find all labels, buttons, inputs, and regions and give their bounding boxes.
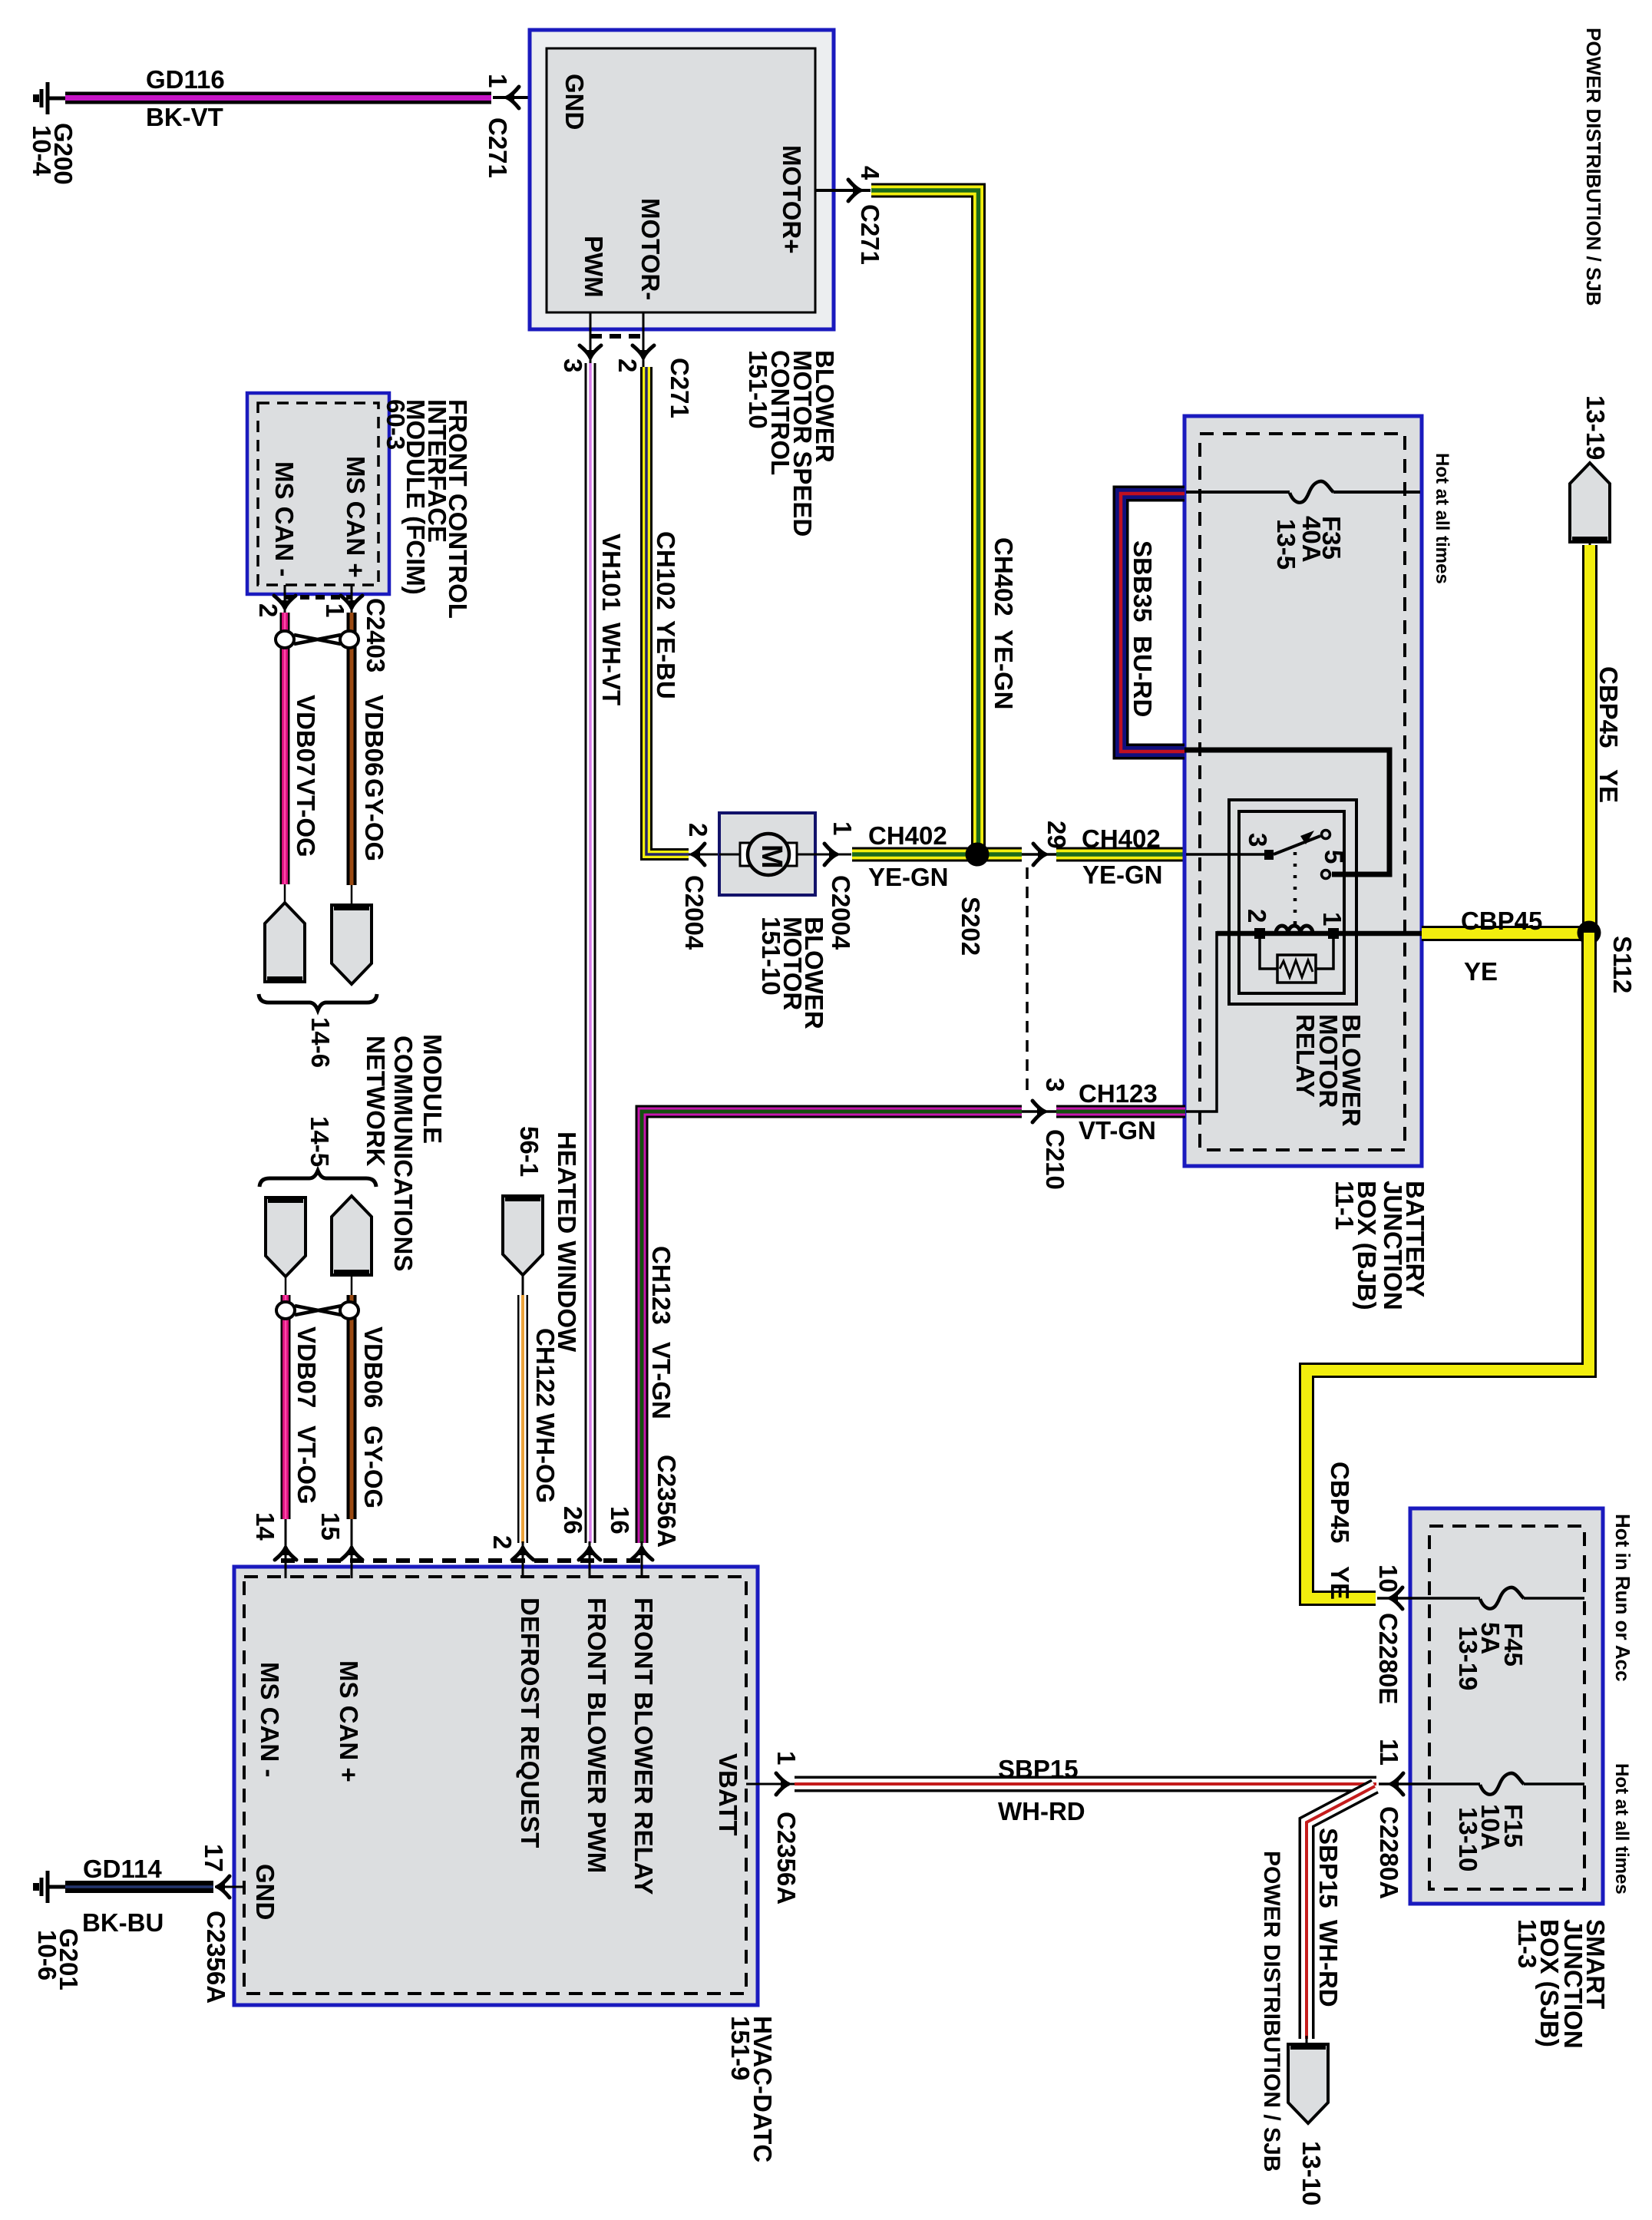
svg-text:10-4: 10-4 <box>28 125 56 177</box>
svg-text:RELAY: RELAY <box>1291 1014 1320 1098</box>
svg-text:151-10: 151-10 <box>744 350 772 429</box>
svg-text:GND: GND <box>560 74 589 130</box>
svg-text:17: 17 <box>200 1844 228 1872</box>
svg-text:2: 2 <box>684 823 712 837</box>
off-page arrow 13-19 <box>1570 463 1610 542</box>
HVAC pin 26 arrow <box>579 1547 600 1560</box>
connector C210 dashed link <box>1026 867 1029 1098</box>
svg-text:3: 3 <box>559 358 587 372</box>
svg-text:S202: S202 <box>957 897 985 956</box>
wire relay coil line <box>1217 931 1422 937</box>
blower motor relay inner box <box>1239 811 1344 993</box>
wire pin1 to box <box>493 96 547 99</box>
svg-text:MS CAN +: MS CAN + <box>335 1660 363 1782</box>
svg-text:Hot at all times: Hot at all times <box>1432 453 1452 584</box>
svg-text:C2356A: C2356A <box>202 1911 230 2004</box>
svg-text:MS CAN +: MS CAN + <box>342 456 370 578</box>
HVAC GND stub <box>215 1886 246 1888</box>
stub pentagon to VDB06 lower <box>351 1275 353 1297</box>
svg-text:60-3: 60-3 <box>382 399 410 450</box>
stub VDB07 to pin14 <box>285 1519 287 1578</box>
wire MOTOR- pin2 stub <box>643 312 645 368</box>
FCIM pin 1 arrow <box>341 596 362 609</box>
svg-text:56-1: 56-1 <box>515 1126 544 1177</box>
svg-text:2: 2 <box>488 1535 517 1549</box>
svg-text:C271: C271 <box>484 117 512 178</box>
stub pentagon to CBP45 <box>1589 542 1591 557</box>
svg-text:14-6: 14-6 <box>306 1017 335 1068</box>
svg-text:NETWORK: NETWORK <box>362 1036 390 1167</box>
fuse F15 10A <box>1480 1773 1524 1795</box>
svg-text:VDB07: VDB07 <box>292 695 320 776</box>
HVAC pin 2 arrow <box>512 1547 534 1560</box>
svg-text:YE-GN: YE-GN <box>990 629 1018 710</box>
svg-text:YE-GN: YE-GN <box>1082 861 1163 889</box>
HVAC pin 16 arrow <box>631 1547 653 1560</box>
pin 29 arrow <box>1033 844 1046 865</box>
brace 14-5 <box>259 1171 376 1187</box>
svg-text:11-1: 11-1 <box>1330 1181 1359 1230</box>
svg-text:2: 2 <box>613 358 642 372</box>
svg-text:DEFROST REQUEST: DEFROST REQUEST <box>516 1597 544 1848</box>
svg-text:VDB07: VDB07 <box>292 1326 321 1408</box>
svg-text:YE: YE <box>1326 1566 1354 1600</box>
HVAC pin 26 stub <box>589 1541 591 1578</box>
svg-text:BK-VT: BK-VT <box>146 103 223 131</box>
svg-text:VBATT: VBATT <box>714 1753 742 1836</box>
svg-text:Hot at all times: Hot at all times <box>1611 1763 1632 1895</box>
svg-text:29: 29 <box>1042 821 1071 849</box>
connector pin 1 C271 arrow <box>506 87 519 108</box>
twisted pair upper <box>276 631 294 648</box>
svg-text:C2403: C2403 <box>362 598 390 672</box>
svg-text:3: 3 <box>1244 833 1272 847</box>
svg-text:CBP45: CBP45 <box>1461 907 1542 935</box>
stub VDB06 to pin15 <box>351 1519 353 1578</box>
svg-text:CH402: CH402 <box>990 537 1018 616</box>
FCIM pin1 stub <box>351 585 353 613</box>
pin 3 arrow C210 <box>1032 1101 1046 1122</box>
FCIM dashed border <box>258 403 378 585</box>
svg-text:GND: GND <box>251 1864 279 1920</box>
off-page arrow VDB07 down <box>266 1198 306 1277</box>
svg-text:13-10: 13-10 <box>1454 1807 1482 1871</box>
HVAC pin 15 stub <box>351 1541 353 1578</box>
wire SBP15 WH-RD horizontal <box>795 1776 1376 1792</box>
blower motor line left <box>719 854 742 856</box>
svg-text:M: M <box>755 844 788 869</box>
wire relay feed <box>1184 750 1389 874</box>
wire SBB35 BU-RD <box>1121 494 1184 752</box>
svg-text:VT-OG: VT-OG <box>292 778 320 857</box>
wire hot feed F35 <box>1186 491 1290 494</box>
smart junction box SJB <box>1410 1508 1603 1904</box>
wire VDB07 VT-OG lower <box>281 1295 291 1519</box>
wire SBP15 WH-RD branch <box>1307 1786 1375 2039</box>
svg-text:SBP15: SBP15 <box>1314 1828 1343 1908</box>
HVAC-DATC box <box>234 1567 758 2005</box>
wire CH102 YE-BU <box>646 367 689 854</box>
front control interface module FCIM box <box>247 393 389 594</box>
blower motor speed control U-box outer <box>530 30 834 329</box>
svg-text:YE-BU: YE-BU <box>652 620 680 699</box>
svg-text:JUNCTION: JUNCTION <box>1379 1181 1407 1310</box>
svg-text:YE-GN: YE-GN <box>868 863 949 891</box>
wire arrow to motor box <box>689 854 720 856</box>
wire CBP45 YE upper <box>1582 545 1597 933</box>
wire CH123 VT-GN main <box>642 1112 1022 1543</box>
svg-text:POWER DISTRIBUTION / SJB: POWER DISTRIBUTION / SJB <box>1582 28 1605 306</box>
battery junction box BJB <box>1184 416 1422 1166</box>
blower motor speed control inner box <box>547 48 815 312</box>
svg-text:C2280A: C2280A <box>1375 1806 1403 1899</box>
blower motor brush left <box>740 843 752 866</box>
svg-text:BU-RD: BU-RD <box>1128 636 1157 717</box>
twisted pair lower <box>276 1302 295 1319</box>
stub pentagon CH122 <box>522 1274 524 1297</box>
wire CBP45 YE lower <box>1307 933 1589 1598</box>
wire VDB06 GY-OG lower <box>347 1295 357 1519</box>
svg-text:VH101: VH101 <box>597 534 626 611</box>
FCIM pin 2 arrow <box>274 596 296 609</box>
svg-text:C2280E: C2280E <box>1374 1613 1403 1704</box>
svg-text:C271: C271 <box>666 358 694 418</box>
ground G201 <box>36 1871 65 1903</box>
wire GD114 BK-BU <box>65 1881 213 1893</box>
HVAC dashed border <box>244 1577 746 1994</box>
svg-text:13-19: 13-19 <box>1581 395 1610 460</box>
svg-text:13-10: 13-10 <box>1297 2141 1326 2205</box>
VBATT stub <box>746 1783 795 1786</box>
svg-text:SBB35: SBB35 <box>1128 540 1157 622</box>
svg-text:WH-RD: WH-RD <box>998 1797 1085 1825</box>
pin 17 arrow <box>216 1876 230 1898</box>
HVAC pin 2 stub <box>522 1541 524 1578</box>
wire CH402 to BJB <box>1056 847 1185 862</box>
svg-text:BK-BU: BK-BU <box>82 1908 164 1937</box>
svg-text:CH122: CH122 <box>531 1328 560 1407</box>
HVAC pin 14 stub <box>285 1541 287 1578</box>
svg-text:MOTOR-: MOTOR- <box>636 198 665 300</box>
pin 2 arrow <box>633 345 654 358</box>
pin 3 arrow <box>580 345 601 358</box>
splice S112 <box>1578 921 1601 945</box>
off-page arrow VDB06 down <box>332 905 372 984</box>
relay resistor branch <box>1260 933 1333 969</box>
wire VDB06 GY-OG upper <box>347 613 357 885</box>
blower motor box <box>719 813 815 895</box>
svg-text:COMMUNICATIONS: COMMUNICATIONS <box>389 1036 418 1271</box>
blower motor pin 2 arrow C2004 <box>692 844 705 865</box>
svg-text:3: 3 <box>1041 1078 1069 1092</box>
svg-text:VDB06: VDB06 <box>359 1326 388 1408</box>
svg-text:GD114: GD114 <box>83 1855 162 1883</box>
wire CH122 WH-OG <box>517 1295 528 1543</box>
wire pin10 to F45 <box>1377 1597 1480 1600</box>
svg-text:4: 4 <box>856 166 884 180</box>
svg-text:VDB06: VDB06 <box>360 695 388 776</box>
svg-text:MOTOR+: MOTOR+ <box>778 145 806 254</box>
blower motor pin 1 arrow C2004 <box>824 844 838 865</box>
relay dotted link <box>1294 852 1297 926</box>
connector C2356A dashed link <box>281 1558 646 1563</box>
BJB dashed border <box>1200 434 1405 1150</box>
svg-text:YE: YE <box>1594 769 1623 803</box>
fuse F45 5A <box>1480 1587 1524 1609</box>
off-page arrow VDB07 up <box>265 903 305 982</box>
wire link under pin3 C210 <box>1022 1110 1056 1113</box>
wire CBP45 YE horizontal <box>1422 926 1595 941</box>
wire link under pin29 <box>1022 853 1056 856</box>
svg-text:GD116: GD116 <box>146 65 225 94</box>
svg-text:C2004: C2004 <box>827 875 855 950</box>
svg-text:FRONT BLOWER RELAY: FRONT BLOWER RELAY <box>629 1597 658 1895</box>
wire CH402 into relay <box>1186 853 1267 856</box>
svg-text:VT-OG: VT-OG <box>292 1425 321 1505</box>
wire pin11 to F15 <box>1379 1782 1480 1786</box>
wire CH123 inside BJB <box>1186 931 1217 1112</box>
blower motor brush right <box>785 843 797 866</box>
svg-text:40A: 40A <box>1297 516 1326 563</box>
svg-text:MODULE: MODULE <box>418 1034 447 1144</box>
fuse F35 40A <box>1290 481 1333 503</box>
relay pin 5 circle <box>1322 870 1330 879</box>
relay contact 5 upper circle <box>1322 831 1330 839</box>
wire GD116 BK-VT <box>65 92 491 104</box>
svg-text:CH123: CH123 <box>1079 1079 1158 1108</box>
pin 10 arrow C2280E <box>1389 1587 1403 1609</box>
svg-text:WH-OG: WH-OG <box>531 1413 560 1503</box>
svg-text:1: 1 <box>772 1751 801 1765</box>
ground G200 <box>36 82 65 114</box>
wire stub to pentagon right down <box>351 885 353 906</box>
wire CH123 VT-GN right <box>1056 1105 1185 1118</box>
svg-text:MS CAN -: MS CAN - <box>270 461 299 576</box>
svg-text:GY-OG: GY-OG <box>360 778 388 861</box>
svg-text:CH402: CH402 <box>1082 824 1161 853</box>
relay pin 2 junction <box>1254 928 1265 939</box>
off-page arrow HEATED WINDOW <box>503 1196 543 1275</box>
off-page arrow 13-10 <box>1288 2044 1328 2123</box>
svg-text:10: 10 <box>1374 1564 1403 1593</box>
blower motor line right <box>796 854 815 856</box>
relay pin 3 terminal <box>1264 850 1274 860</box>
blower motor circle M <box>748 834 789 875</box>
svg-text:C210: C210 <box>1041 1129 1069 1190</box>
svg-text:C2356A: C2356A <box>653 1455 681 1548</box>
svg-text:S112: S112 <box>1608 936 1637 993</box>
svg-text:15: 15 <box>316 1512 345 1541</box>
svg-text:16: 16 <box>606 1506 634 1535</box>
svg-text:13-5: 13-5 <box>1272 519 1300 570</box>
relay switch arm <box>1274 836 1320 854</box>
HVAC pin 14 arrow <box>275 1547 296 1560</box>
svg-text:2: 2 <box>1243 909 1271 923</box>
HVAC pin 16 stub <box>641 1541 643 1578</box>
svg-text:151-9: 151-9 <box>726 2016 755 2080</box>
svg-text:WH-VT: WH-VT <box>597 623 626 705</box>
svg-text:14: 14 <box>251 1512 279 1541</box>
svg-text:GY-OG: GY-OG <box>359 1425 388 1508</box>
svg-text:WH-RD: WH-RD <box>1314 1920 1343 2007</box>
connector C2403 dashed link <box>285 595 352 600</box>
svg-text:C271: C271 <box>856 204 884 265</box>
relay resistor zigzag <box>1280 960 1313 977</box>
svg-text:CH402: CH402 <box>868 821 947 850</box>
svg-text:13-19: 13-19 <box>1454 1626 1482 1690</box>
SJB dashed border <box>1429 1526 1584 1889</box>
svg-text:SBP15: SBP15 <box>998 1755 1079 1783</box>
stub pentagon to VDB07 lower <box>285 1275 287 1297</box>
pin 1 arrow C2356A <box>776 1773 789 1795</box>
wire VDB07 VT-OG upper <box>280 613 290 884</box>
wire PWM pin3 stub <box>590 312 592 364</box>
FCIM pin2 stub <box>284 585 286 613</box>
svg-text:151-10: 151-10 <box>757 917 785 996</box>
svg-text:VT-GN: VT-GN <box>647 1342 676 1419</box>
svg-text:HEATED WINDOW: HEATED WINDOW <box>553 1131 581 1353</box>
stub to pentagon 13-10 <box>1306 2036 1308 2048</box>
relay coil <box>1276 926 1313 933</box>
svg-text:PWM: PWM <box>580 236 608 298</box>
svg-text:11-3: 11-3 <box>1513 1919 1541 1968</box>
svg-text:CH102: CH102 <box>652 531 680 610</box>
svg-text:1: 1 <box>828 821 857 835</box>
svg-text:11: 11 <box>1375 1739 1403 1766</box>
wire VH101 WH-VT <box>585 363 596 1543</box>
blower motor relay outer box <box>1229 800 1356 1004</box>
wire MOTOR+ pin4 <box>815 189 871 192</box>
svg-text:10-6: 10-6 <box>33 1930 61 1980</box>
svg-text:VT-GN: VT-GN <box>1079 1116 1156 1145</box>
splice S202 <box>966 843 990 867</box>
pin 4 arrow C271 <box>848 180 861 201</box>
relay resistor box <box>1277 955 1316 983</box>
wire CH402 YE-GN from pin4 to S202 <box>871 190 979 854</box>
HVAC pin 15 arrow <box>341 1547 362 1560</box>
svg-text:FRONT BLOWER PWM: FRONT BLOWER PWM <box>583 1597 611 1873</box>
relay pin 1 junction <box>1328 928 1339 939</box>
connector C271 dashed link <box>590 334 643 339</box>
svg-text:Hot in Run or Acc: Hot in Run or Acc <box>1611 1514 1634 1682</box>
svg-text:C2004: C2004 <box>680 875 709 950</box>
brace 14-6 <box>259 994 377 1010</box>
svg-text:MS CAN -: MS CAN - <box>256 1662 284 1777</box>
svg-text:CH123: CH123 <box>647 1246 676 1325</box>
svg-text:C2356A: C2356A <box>772 1812 801 1905</box>
svg-text:CBP45: CBP45 <box>1326 1462 1354 1543</box>
svg-text:CBP45: CBP45 <box>1594 666 1623 748</box>
svg-text:2: 2 <box>254 603 282 617</box>
svg-text:YE: YE <box>1464 957 1498 986</box>
off-page arrow VDB06 up <box>332 1196 372 1275</box>
svg-text:1: 1 <box>321 603 349 617</box>
svg-text:14-5: 14-5 <box>306 1116 334 1167</box>
svg-text:1: 1 <box>484 74 512 88</box>
wire stub to pentagon left up <box>284 884 286 904</box>
svg-text:26: 26 <box>559 1506 587 1535</box>
wire CH402 blower to S202 <box>852 847 1022 862</box>
svg-text:5: 5 <box>1320 850 1348 864</box>
svg-text:POWER DISTRIBUTION / SJB: POWER DISTRIBUTION / SJB <box>1259 1851 1284 2172</box>
svg-text:1: 1 <box>1318 912 1346 926</box>
blower motor pin1 stub <box>815 854 851 856</box>
pin 11 arrow C2280A <box>1390 1773 1403 1795</box>
